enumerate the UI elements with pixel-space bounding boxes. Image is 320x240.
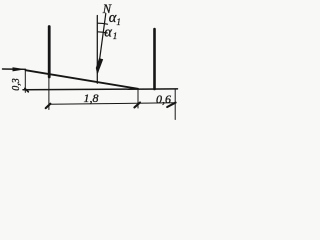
svg-text:1,8: 1,8 xyxy=(84,91,99,105)
svg-text:0,6: 0,6 xyxy=(156,92,171,106)
svg-text:0,3: 0,3 xyxy=(11,78,22,91)
